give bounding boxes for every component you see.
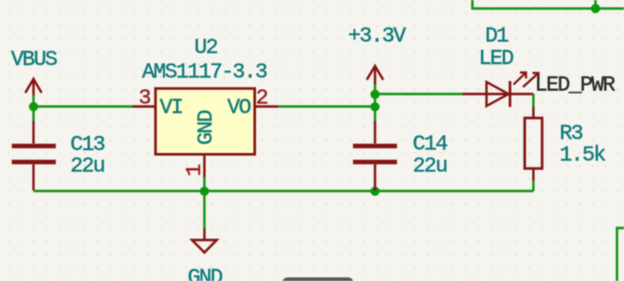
node junction top-right <box>591 4 600 13</box>
wire top-right net <box>472 0 624 9</box>
wire pin1 to rail <box>203 177 205 191</box>
power symbol +3.3V <box>367 66 383 84</box>
pin 3 VI <box>133 105 156 107</box>
node junction LED branch <box>370 90 379 99</box>
wire GND drop <box>203 191 205 229</box>
wire LED to R3 <box>532 94 534 108</box>
svg-text:+3.3V: +3.3V <box>348 24 406 48</box>
capacitor C13 <box>12 121 56 191</box>
pin 1 GND <box>203 154 205 177</box>
resistor R3 <box>525 107 542 181</box>
svg-text:VO: VO <box>227 96 250 120</box>
pin 2 VO <box>255 105 278 107</box>
node junction GND drop <box>200 187 209 196</box>
wire C13 top <box>32 107 34 122</box>
svg-text:22u: 22u <box>413 155 448 179</box>
svg-text:22u: 22u <box>70 155 105 179</box>
svg-text:3: 3 <box>139 87 151 111</box>
svg-text:LED_PWR: LED_PWR <box>535 74 616 98</box>
wire bottom rail <box>33 190 533 192</box>
sheet top edge (bottom middle gray bar) <box>283 277 354 281</box>
wire R3 to bottom rail <box>532 181 534 192</box>
svg-text:GND: GND <box>188 266 223 281</box>
svg-text:U2: U2 <box>194 36 217 60</box>
power symbol VBUS <box>25 79 41 96</box>
diode D1 LED <box>463 73 539 108</box>
svg-text:1: 1 <box>183 165 207 177</box>
wire LED branch horizontal <box>375 93 463 95</box>
svg-text:R3: R3 <box>560 122 583 146</box>
svg-text:1.5k: 1.5k <box>560 144 606 168</box>
op-amp U2 regulator body <box>156 89 255 155</box>
svg-text:LED: LED <box>479 47 514 71</box>
ground <box>192 229 217 253</box>
wire bottom-right net <box>617 228 624 281</box>
wire C14 vertical <box>374 83 376 121</box>
svg-text:C14: C14 <box>413 133 448 157</box>
wire VO to C14 <box>278 105 375 107</box>
svg-text:AMS1117-3.3: AMS1117-3.3 <box>142 60 267 84</box>
svg-text:VBUS: VBUS <box>11 48 57 72</box>
svg-text:D1: D1 <box>485 24 508 48</box>
capacitor C14 <box>353 121 397 191</box>
svg-text:2: 2 <box>256 87 268 111</box>
node junction C14 bottom <box>370 187 379 196</box>
svg-text:VI: VI <box>160 96 183 120</box>
wire VBUS to VI <box>32 95 34 107</box>
node junction VO/C14 <box>370 102 379 111</box>
svg-text:GND: GND <box>195 110 219 145</box>
node junction at VBUS/C13 <box>29 102 38 111</box>
